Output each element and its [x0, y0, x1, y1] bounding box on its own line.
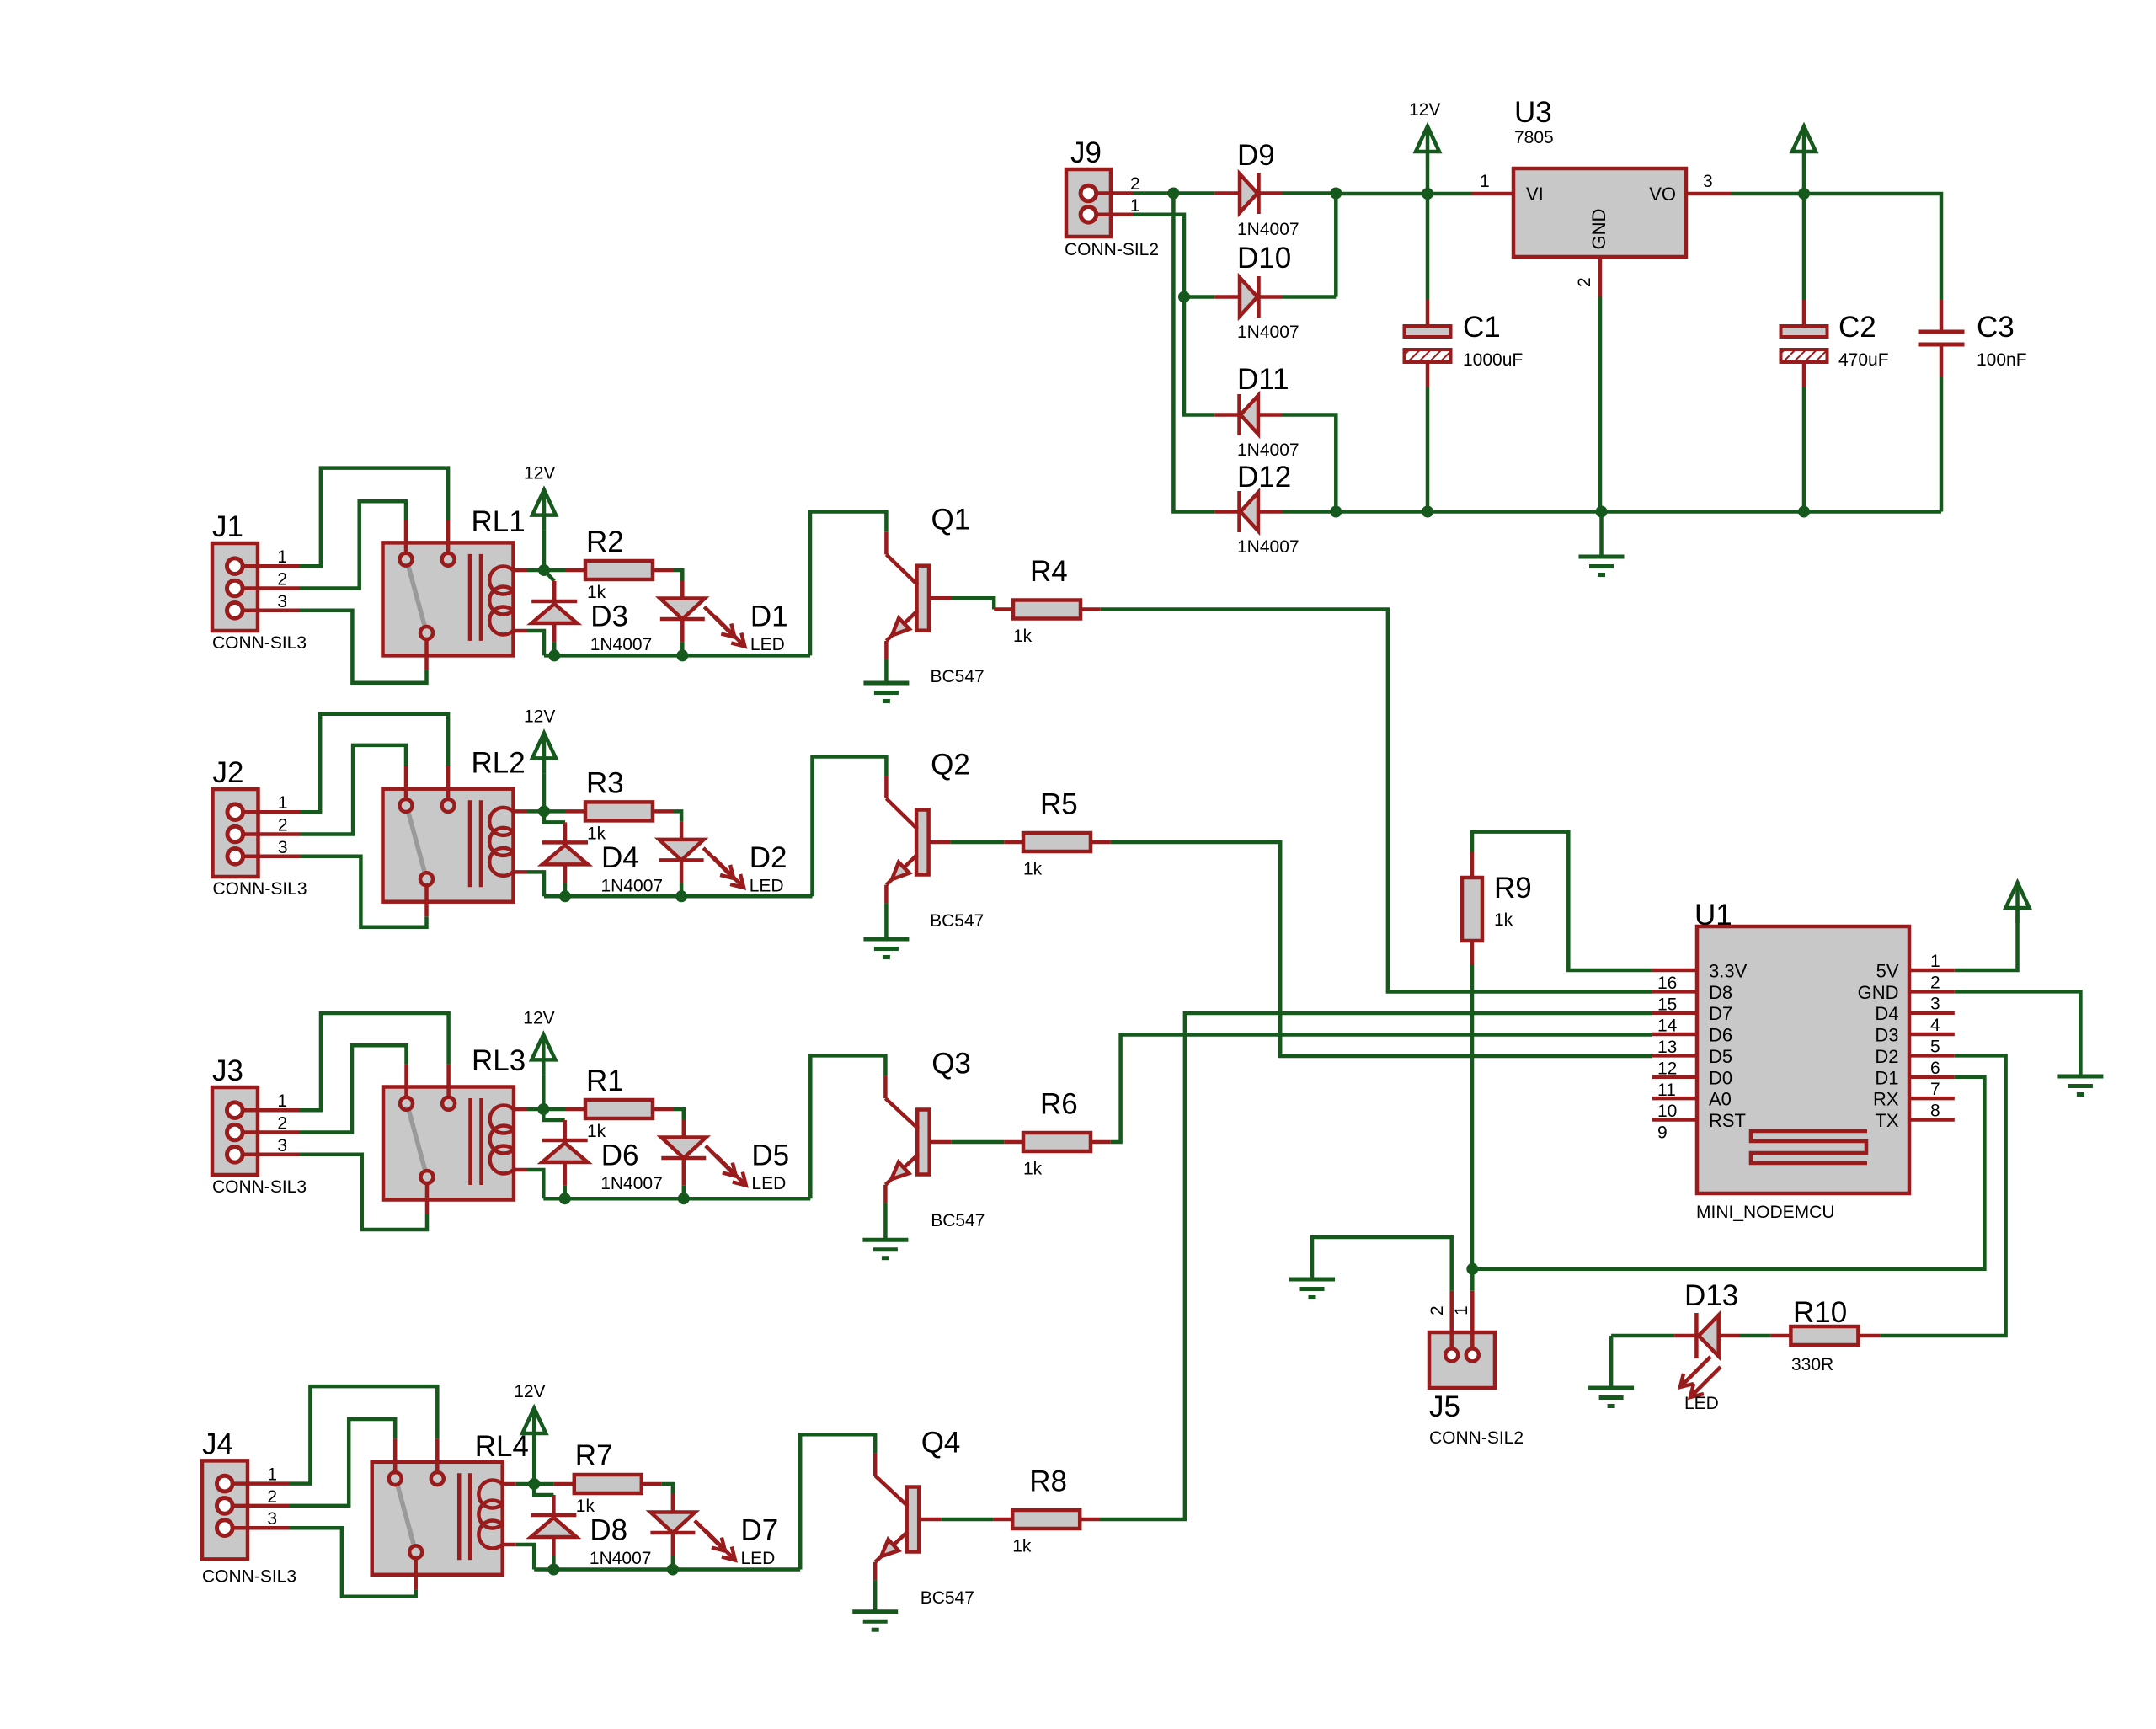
wire D12 anode to ground rail [1283, 510, 1337, 514]
wire R10 right stub [1858, 1334, 1880, 1338]
wire U3 GND to ground rail [1598, 297, 1603, 512]
svg-text:D0: D0 [1709, 1067, 1732, 1088]
pin 13 (D6) of U1 [1652, 1033, 1697, 1037]
wire D13 to R10 [1739, 1334, 1771, 1338]
ground (emitter Q4) [852, 1609, 898, 1614]
power +5V arrow (above C2) [1792, 126, 1816, 152]
relay RL2 [383, 789, 514, 902]
wire diode D3 to ground rail (row 1) [552, 623, 557, 642]
connector J9 CONN-SIL2 [1066, 169, 1111, 237]
wire rail up to transistor Q3 collector [810, 1055, 885, 1198]
resistor R4 [1013, 600, 1081, 619]
resistor R1 [585, 1100, 653, 1118]
wire node to resistor R1 (row 3) [543, 1107, 565, 1112]
relay RL4 [372, 1462, 503, 1575]
wire resistor R5 to NodeMCU pin (net row 2) [1091, 840, 1111, 845]
wire C3 to ground rail [1940, 344, 1944, 377]
relay RL1 [383, 542, 514, 655]
svg-text:R8: R8 [1029, 1465, 1067, 1498]
svg-text:Q1: Q1 [931, 504, 971, 536]
wire +12V rail to regulator input [1336, 192, 1428, 196]
ground (emitter Q1) [863, 681, 909, 686]
wire J3 pin 3 to relay RL3 pole [300, 1155, 427, 1230]
wire node to diode D4 (jog) [544, 811, 565, 822]
svg-text:1: 1 [277, 1091, 287, 1111]
svg-text:5: 5 [1930, 1037, 1940, 1056]
svg-text:R4: R4 [1030, 555, 1068, 588]
wire D11 anode to ground vertical [1283, 415, 1337, 512]
ground (U1 GND) [2057, 1075, 2103, 1079]
wire J4 pin 2 to relay RL4 common contact [290, 1419, 395, 1506]
wire node to resistor R2 (row 1) [544, 568, 565, 573]
ground (J5 pin 2) [1289, 1278, 1335, 1282]
svg-text:CONN-SIL3: CONN-SIL3 [212, 1177, 307, 1197]
wire J2 pin 3 to relay RL2 pole [301, 856, 427, 927]
junction diode D3 at rail [548, 649, 560, 661]
wire U1 5V pin to +5V arrow [1955, 908, 2018, 970]
svg-text:CONN-SIL3: CONN-SIL3 [213, 879, 307, 899]
svg-text:RL2: RL2 [472, 746, 526, 779]
wire node to diode D8 (jog) [534, 1484, 553, 1495]
wire J5 pin 2 to ground [1312, 1237, 1452, 1291]
capacitor C3 100nF [1919, 330, 1965, 334]
wire ground rail (bottom bus) [1336, 510, 1941, 514]
svg-text:CONN-SIL2: CONN-SIL2 [1429, 1428, 1524, 1448]
svg-text:7: 7 [1930, 1080, 1940, 1099]
wire relay coil bottom to rail (row 2) [527, 872, 545, 896]
wire ground to D13 [1611, 1334, 1674, 1338]
svg-text:BC547: BC547 [931, 1211, 985, 1230]
svg-text:2: 2 [277, 570, 287, 590]
diode D12 1N4007 [1214, 510, 1239, 514]
junction node B at D10 anode [1178, 291, 1190, 303]
svg-text:D7: D7 [1709, 1003, 1732, 1024]
svg-text:R9: R9 [1494, 872, 1532, 905]
pin 1 (5V) of U1 [1909, 969, 1955, 973]
svg-text:D11: D11 [1237, 363, 1289, 396]
junction node A [1167, 188, 1179, 200]
svg-text:R1: R1 [586, 1065, 624, 1097]
diode D4 1N4007 [542, 840, 588, 845]
svg-text:12V: 12V [523, 1008, 554, 1027]
junction coil-top node (row 4) [528, 1478, 540, 1490]
wire U1 D1 pin to J5 node [1472, 1077, 1984, 1269]
resistor R2 [585, 561, 653, 579]
capacitor C1 1000uF [1426, 194, 1430, 299]
power +5V arrow (at U1) [2006, 883, 2030, 908]
junction C1 at ground rail [1422, 506, 1433, 518]
capacitor C2 470uF [1802, 194, 1806, 299]
svg-text:J4: J4 [202, 1427, 233, 1460]
svg-text:2: 2 [1130, 174, 1140, 194]
wire diode D6 to ground rail (row 3) [563, 1162, 567, 1185]
pin 14 (D7) of U1 [1652, 1011, 1697, 1015]
svg-text:D4: D4 [1875, 1003, 1898, 1024]
resistor R6 [1023, 1133, 1091, 1151]
svg-text:R6: R6 [1040, 1088, 1078, 1121]
wire J2 pin 2 to relay RL2 common contact [301, 745, 407, 835]
wire D10 cathode to vertical [1283, 295, 1337, 299]
junction LED D7 at rail [667, 1564, 679, 1576]
svg-text:2: 2 [1575, 277, 1594, 287]
wire R9 top to U1 3.3V pin [1472, 832, 1652, 970]
wire J3 pin 1 to relay RL3 NO contact [300, 1013, 449, 1110]
svg-text:RX: RX [1873, 1089, 1899, 1110]
svg-text:D5: D5 [751, 1139, 789, 1172]
svg-text:1N4007: 1N4007 [1237, 220, 1299, 239]
svg-text:LED: LED [741, 1549, 776, 1568]
svg-text:D5: D5 [1709, 1046, 1732, 1067]
svg-text:3: 3 [277, 592, 287, 611]
resistor R8 [1012, 1510, 1080, 1529]
wire resistor R2 to LED D1 [653, 568, 673, 573]
svg-text:J3: J3 [212, 1054, 243, 1087]
svg-text:D8: D8 [590, 1514, 627, 1547]
junction diode D4 at rail [559, 890, 571, 902]
svg-text:CONN-SIL3: CONN-SIL3 [202, 1566, 296, 1586]
ground (emitter Q2) [863, 937, 909, 942]
svg-text:D1: D1 [750, 600, 788, 633]
relay RL3 [383, 1087, 514, 1200]
wire U1 D2 pin to R10 [1881, 1055, 2006, 1336]
connector J4 CONN-SIL3 [202, 1460, 248, 1559]
svg-text:100nF: 100nF [1977, 350, 2027, 370]
junction LED D1 at rail [676, 649, 688, 661]
wire relay coil top to node (row 4) [516, 1482, 535, 1486]
wire rail up to transistor Q1 collector [810, 512, 886, 656]
wire D9 cathode to +12V rail [1283, 191, 1337, 195]
svg-text:1N4007: 1N4007 [600, 1174, 663, 1193]
wire U3 VO to 5V node [1731, 192, 1804, 196]
diode D11 1N4007 [1214, 413, 1239, 417]
svg-text:D4: D4 [601, 841, 639, 874]
svg-text:470uF: 470uF [1838, 350, 1889, 370]
svg-text:1N4007: 1N4007 [1237, 323, 1299, 342]
wire node to diode D3 (diagonal jog) [544, 570, 554, 581]
junction diode D6 at rail [559, 1193, 571, 1204]
junction C2 at ground rail [1798, 506, 1810, 518]
wire ground rail of row 2 [544, 894, 813, 899]
junction D9/D10 cathode [1330, 188, 1342, 200]
svg-text:7805: 7805 [1514, 128, 1554, 147]
svg-text:C1: C1 [1463, 311, 1501, 344]
svg-text:D13: D13 [1684, 1279, 1738, 1312]
svg-text:D1: D1 [1875, 1067, 1898, 1088]
svg-text:VO: VO [1649, 184, 1676, 205]
wire base of Q3 to resistor R6 [930, 1140, 952, 1145]
diode D8 1N4007 [531, 1513, 576, 1518]
wire ground rail of row 1 [544, 654, 810, 658]
svg-text:1: 1 [267, 1465, 277, 1485]
svg-text:VI: VI [1526, 184, 1544, 205]
pin 16 (3.3V) of U1 [1652, 969, 1697, 973]
IC U1 MINI_NODEMCU body [1697, 926, 1909, 1193]
svg-text:BC547: BC547 [921, 1588, 974, 1608]
svg-text:1: 1 [277, 547, 287, 567]
wire LED D5 to rail [682, 1158, 686, 1185]
svg-text:J9: J9 [1070, 136, 1102, 169]
svg-text:1k: 1k [1012, 1537, 1032, 1556]
power 12V (row 4) [522, 1408, 546, 1433]
svg-text:RST: RST [1709, 1110, 1746, 1131]
svg-text:4: 4 [1930, 1016, 1940, 1035]
LED D5 [661, 1138, 706, 1159]
svg-text:U3: U3 [1514, 96, 1552, 129]
transistor Q3 BC547 [917, 1110, 930, 1175]
svg-text:5V: 5V [1876, 961, 1899, 982]
transistor Q2 BC547 [916, 810, 929, 875]
wire rail up to transistor Q4 collector [800, 1434, 875, 1569]
svg-text:1k: 1k [1013, 627, 1033, 646]
svg-text:C3: C3 [1977, 311, 2015, 344]
svg-text:R7: R7 [575, 1439, 613, 1472]
wire LED D1 to rail [680, 619, 685, 642]
svg-text:3: 3 [277, 1136, 287, 1155]
svg-text:MINI_NODEMCU: MINI_NODEMCU [1696, 1203, 1835, 1222]
svg-text:3: 3 [1930, 995, 1940, 1014]
svg-text:1N4007: 1N4007 [1237, 440, 1299, 460]
svg-text:CONN-SIL2: CONN-SIL2 [1065, 240, 1159, 259]
svg-text:12V: 12V [1409, 100, 1440, 120]
pin 5 (D2) of U1 [1909, 1054, 1955, 1058]
resistor R7 [574, 1475, 642, 1493]
resistor R5 [1023, 833, 1091, 851]
svg-text:RL3: RL3 [472, 1044, 526, 1077]
svg-text:12V: 12V [514, 1382, 545, 1401]
connector J5 CONN-SIL2 [1429, 1332, 1495, 1388]
LED D13 [1674, 1334, 1695, 1338]
svg-text:TX: TX [1875, 1110, 1898, 1131]
wire node A down to D12 cathode [1173, 194, 1214, 512]
wire resistor R7 to LED D7 [642, 1482, 662, 1486]
wire node A to D9 anode [1173, 191, 1214, 195]
pin 11 (D0) of U1 [1652, 1075, 1697, 1080]
svg-text:J5: J5 [1429, 1390, 1460, 1423]
svg-text:C2: C2 [1838, 311, 1876, 344]
svg-text:1: 1 [1480, 172, 1490, 191]
wire J1 pin 2 to relay RL1 common contact [300, 501, 406, 588]
svg-text:2: 2 [1428, 1305, 1447, 1315]
svg-text:R5: R5 [1040, 788, 1078, 821]
svg-text:1k: 1k [1494, 910, 1513, 930]
LED D2 [659, 840, 704, 861]
wire relay coil bottom to rail (row 3) [527, 1170, 543, 1198]
ground (D13 anode side) [1609, 1336, 1614, 1388]
LED D7 [650, 1513, 695, 1534]
wire J3 pin 2 to relay RL3 common contact [300, 1045, 407, 1132]
svg-text:2: 2 [278, 816, 288, 835]
connector J2 CONN-SIL3 [213, 789, 259, 877]
svg-text:D6: D6 [1709, 1025, 1732, 1046]
wire J1 pin 3 to relay RL1 pole [300, 611, 427, 683]
wire node to diode D6 (jog) [543, 1109, 564, 1120]
wire relay coil top to node (row 3) [527, 1107, 543, 1112]
junction ground rail at D11/D12 [1330, 506, 1342, 518]
diode D10 1N4007 [1214, 295, 1240, 299]
wire ground rail of row 4 [534, 1567, 800, 1572]
junction J5 pin 1 node [1466, 1263, 1478, 1275]
svg-text:R10: R10 [1793, 1296, 1847, 1329]
pin 10 (A0) of U1 [1652, 1097, 1697, 1101]
ground (emitter Q3) [862, 1238, 908, 1242]
wire J4 pin 3 to relay RL4 pole [290, 1528, 416, 1597]
wire resistor R1 to LED D5 [653, 1107, 673, 1112]
wire diode D4 to ground rail (row 2) [563, 864, 568, 883]
svg-text:1k: 1k [1023, 860, 1043, 879]
svg-text:LED: LED [1684, 1394, 1719, 1413]
junction diode D8 at rail [547, 1564, 559, 1576]
pin 12 (D5) of U1 [1652, 1054, 1697, 1058]
wire J1 pin 1 to relay RL1 NO contact [300, 468, 448, 567]
wire resistor R3 to LED D2 [653, 809, 673, 814]
svg-text:2: 2 [1930, 973, 1940, 992]
svg-text:GND: GND [1858, 982, 1899, 1003]
svg-text:1N4007: 1N4007 [1237, 537, 1299, 557]
wire D10 cathode vertical [1334, 194, 1338, 297]
svg-text:D8: D8 [1709, 982, 1732, 1003]
connector J1 CONN-SIL3 [212, 543, 258, 631]
wire resistor R4 to NodeMCU pin (net row 1) [1081, 607, 1101, 611]
antenna meander inside U1 [1751, 1131, 1867, 1163]
wire J9 pin 1 to bridge node B [1133, 215, 1214, 415]
svg-text:1: 1 [1930, 952, 1940, 971]
wire ground rail of row 3 [543, 1197, 810, 1201]
svg-text:1N4007: 1N4007 [601, 876, 664, 895]
svg-text:1k: 1k [1023, 1160, 1043, 1179]
pin 15 (D8) of U1 [1652, 990, 1697, 994]
svg-text:D3: D3 [1875, 1025, 1898, 1046]
ground (power supply) [1599, 512, 1604, 558]
svg-text:3: 3 [278, 838, 288, 857]
wire 5V node to C3 [1804, 194, 1941, 299]
wire J9 pin 2 to bridge node A [1133, 191, 1173, 195]
svg-text:6: 6 [1930, 1059, 1940, 1078]
svg-text:LED: LED [750, 635, 785, 654]
svg-text:D10: D10 [1237, 242, 1291, 275]
svg-text:Q4: Q4 [921, 1426, 961, 1459]
pin 8 (TX) of U1 [1909, 1118, 1955, 1122]
svg-text:330R: 330R [1791, 1355, 1833, 1374]
svg-text:BC547: BC547 [931, 667, 985, 686]
wire emitter Q1 to ground [884, 659, 889, 683]
wire relay coil bottom to rail (row 1) [527, 631, 545, 655]
resistor R10 330R [1790, 1326, 1858, 1345]
junction 5V node at C2 [1798, 188, 1810, 200]
svg-text:R3: R3 [586, 766, 624, 799]
svg-text:D12: D12 [1237, 461, 1291, 494]
svg-text:D9: D9 [1237, 139, 1275, 172]
diode D6 1N4007 [542, 1139, 588, 1143]
svg-text:1N4007: 1N4007 [590, 635, 653, 654]
svg-text:GND: GND [1588, 209, 1609, 250]
pin 2 of U3 (GND) [1598, 257, 1603, 297]
svg-text:1000uF: 1000uF [1463, 350, 1523, 370]
wire base of Q2 to resistor R5 [929, 840, 951, 845]
wire diode D8 to ground rail (row 4) [552, 1537, 556, 1556]
wire J2 pin 1 to relay RL2 NO contact [301, 714, 449, 812]
svg-text:CONN-SIL3: CONN-SIL3 [212, 633, 307, 653]
svg-text:D6: D6 [601, 1139, 639, 1172]
svg-text:12V: 12V [524, 707, 555, 726]
svg-text:D7: D7 [741, 1514, 779, 1547]
junction LED D5 at rail [678, 1193, 690, 1204]
svg-text:BC547: BC547 [930, 911, 984, 931]
svg-text:A0: A0 [1709, 1089, 1732, 1110]
junction U3 ground at rail [1596, 506, 1608, 518]
power 12V (row 1) [532, 490, 556, 515]
svg-text:2: 2 [277, 1114, 287, 1134]
pin 4 (D3) of U1 [1909, 1033, 1955, 1037]
svg-text:3.3V: 3.3V [1709, 961, 1748, 982]
power 12V (supply) [1416, 126, 1439, 152]
pin 2 (GND) of U1 [1909, 990, 1955, 994]
transistor Q1 BC547 [917, 566, 930, 631]
wire U1 GND pin to ground [1955, 991, 2081, 1076]
svg-text:9: 9 [1657, 1123, 1668, 1142]
wire rail up to transistor Q2 collector [813, 757, 887, 897]
connector J3 CONN-SIL3 [212, 1087, 258, 1175]
svg-text:3: 3 [267, 1509, 277, 1529]
regulator U3 7805 [1513, 168, 1686, 257]
wire base of Q1 to resistor R4 [929, 596, 951, 600]
wire relay coil bottom to rail (row 4) [516, 1545, 535, 1570]
svg-text:U1: U1 [1694, 899, 1732, 931]
svg-text:Q2: Q2 [931, 749, 970, 782]
svg-text:D2: D2 [750, 841, 787, 874]
svg-text:1: 1 [278, 793, 288, 813]
svg-text:12V: 12V [524, 464, 555, 483]
LED D1 [660, 599, 705, 620]
power 12V (row 3) [531, 1034, 555, 1059]
svg-text:D2: D2 [1875, 1046, 1898, 1067]
svg-text:J2: J2 [213, 756, 244, 789]
junction coil-top node (row 3) [537, 1103, 549, 1115]
wire emitter Q3 to ground [883, 1203, 888, 1240]
junction coil-top node (row 1) [538, 564, 550, 576]
pin 3 (D4) of U1 [1909, 1011, 1955, 1015]
diode D9 1N4007 [1214, 191, 1240, 195]
diode D3 1N4007 [531, 600, 577, 604]
pin 6 (D1) of U1 [1909, 1075, 1955, 1080]
pin 9 (RST) of U1 [1652, 1118, 1697, 1122]
wire node to resistor R7 (row 4) [534, 1482, 554, 1486]
wire emitter Q2 to ground [884, 903, 889, 939]
resistor R3 [585, 802, 653, 820]
svg-text:LED: LED [751, 1174, 786, 1193]
wire relay coil top to node (row 1) [527, 568, 545, 573]
wire R9 bottom to J5 pin 1 node [1470, 964, 1475, 1269]
junction 12V node at C1 [1422, 188, 1433, 200]
svg-text:3: 3 [1703, 172, 1713, 191]
wire node to resistor R3 (row 2) [544, 809, 565, 814]
wire node B to D10 anode [1184, 295, 1214, 299]
wire 12V node to U3 VI pin 1 [1428, 192, 1472, 196]
svg-text:Q3: Q3 [931, 1047, 971, 1080]
wire node down to J5 pin 1 [1470, 1269, 1475, 1291]
svg-text:8: 8 [1930, 1101, 1940, 1120]
wire base of Q4 to resistor R8 [919, 1518, 941, 1522]
pin 3 of U3 (VO) [1686, 192, 1731, 196]
svg-text:J1: J1 [212, 510, 243, 543]
junction coil-top node (row 2) [538, 805, 550, 817]
svg-text:1: 1 [1452, 1305, 1471, 1315]
wire emitter Q4 to ground [873, 1580, 878, 1611]
power 12V (row 2) [532, 733, 556, 758]
wire resistor R6 to NodeMCU pin (net row 3) [1091, 1140, 1111, 1145]
svg-text:LED: LED [750, 876, 784, 895]
wire LED D7 to rail [671, 1533, 675, 1556]
wire J4 pin 1 to relay RL4 NO contact [290, 1386, 437, 1484]
